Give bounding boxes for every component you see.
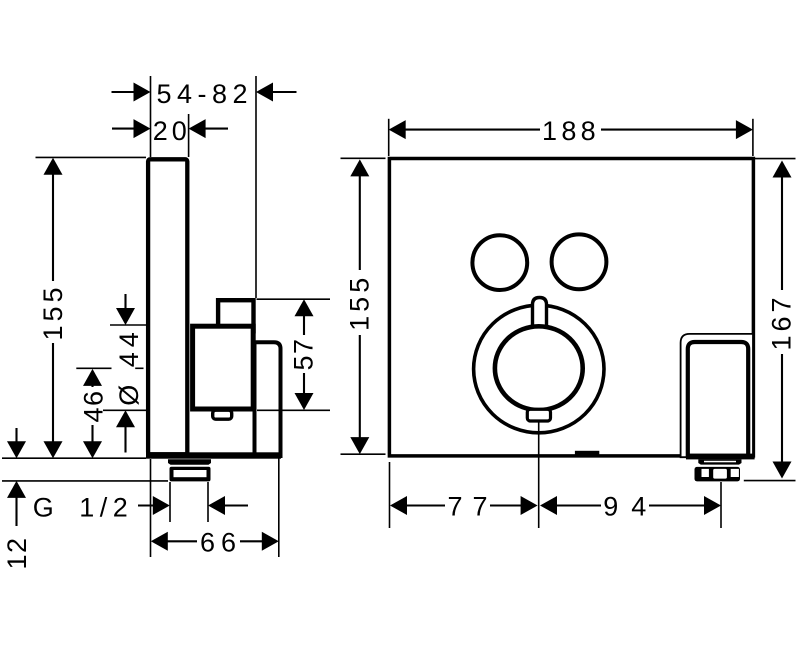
svg-text:G 1/2: G 1/2 [33,493,134,523]
svg-text:46: 46 [79,389,109,422]
svg-text:66: 66 [200,528,242,558]
svg-text:155: 155 [345,274,375,331]
svg-text:Ø 44: Ø 44 [114,327,144,406]
svg-text:94: 94 [603,492,659,522]
svg-text:77: 77 [447,492,497,522]
svg-text:167: 167 [767,293,797,350]
svg-text:54-82: 54-82 [157,79,254,109]
svg-text:57: 57 [289,337,319,370]
svg-text:20: 20 [153,116,191,146]
svg-text:155: 155 [38,283,68,340]
svg-text:188: 188 [542,116,600,146]
svg-text:12: 12 [2,536,32,569]
